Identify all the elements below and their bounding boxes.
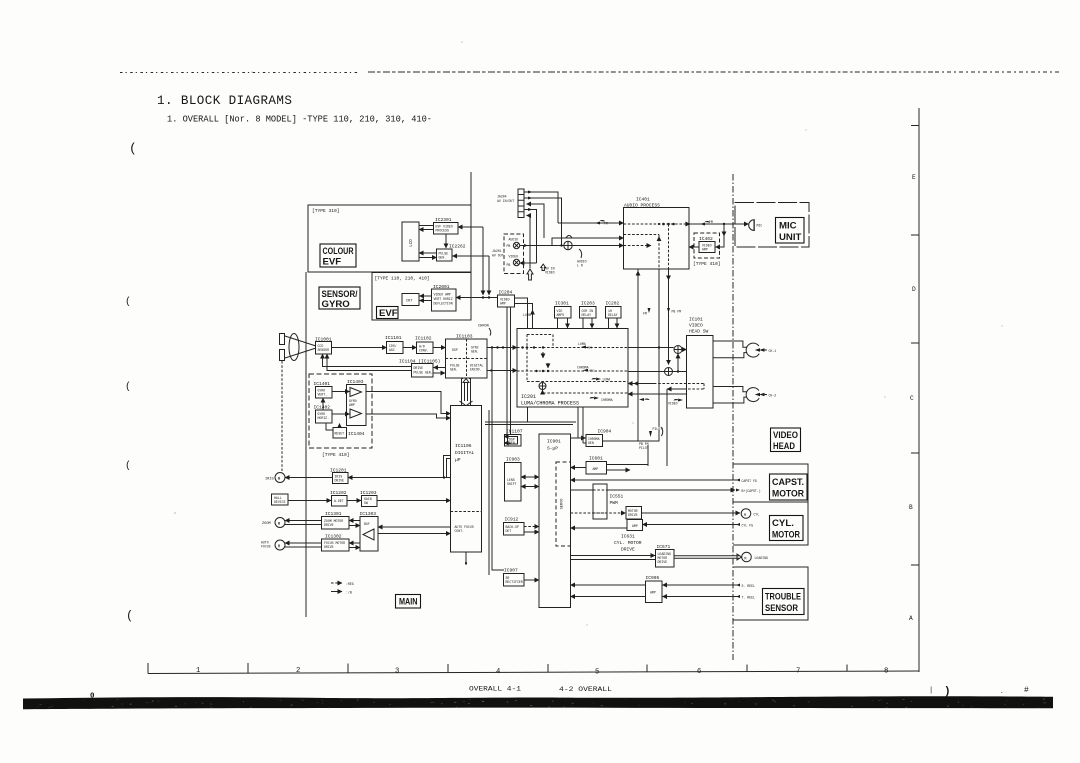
svg-text:DRIVE: DRIVE: [324, 523, 334, 527]
svg-text:DRIVE: DRIVE: [324, 545, 334, 549]
svg-text:VIDEO: VIDEO: [668, 402, 678, 406]
wire IC903 IC901 bus lower: [521, 486, 539, 488]
wire mechanical boundary dash-dot: [732, 174, 734, 660]
node t reel label: [736, 595, 755, 600]
svg-text:C: C: [910, 395, 914, 402]
wire IC905 to servo a: [571, 584, 646, 586]
op-amp IC1101 CDS/AGC: [385, 335, 403, 354]
op-amp IC901 servo microprocessor: [539, 434, 571, 608]
op-amp IC1104 IC1105 drive pulse gen: [399, 359, 440, 378]
op-amp IC1202 A DET: [330, 490, 347, 506]
wire PB luma return: [628, 383, 687, 385]
svg-text:PWM: PWM: [610, 500, 619, 506]
svg-text:S. REEL: S. REEL: [742, 584, 755, 588]
wire IC1402 to gyro amp: [332, 413, 350, 415]
node capst FG label: [736, 479, 757, 484]
wire loading drive to motor: [674, 554, 742, 560]
svg-text:MAIN: MAIN: [399, 596, 418, 607]
op-amp IC1303 buffer: [360, 511, 379, 551]
svg-text:VIDEO: VIDEO: [689, 323, 703, 329]
wire head ch2: [713, 387, 747, 404]
svg-text:(: (: [125, 381, 131, 393]
node MIC UNIT label: [776, 218, 805, 244]
op-amp IC204 video amp: [498, 290, 515, 308]
svg-text:AMP: AMP: [632, 524, 638, 528]
node cyl motor enclosure: [733, 502, 808, 545]
svg-text:CHROMA: CHROMA: [601, 398, 613, 402]
motor loading: [742, 552, 768, 562]
wire buffer to zoom drive: [349, 520, 360, 522]
svg-text:[TYPE 410]: [TYPE 410]: [322, 452, 350, 458]
svg-text:AMP: AMP: [349, 403, 355, 407]
wire IC601 out right: [607, 445, 649, 465]
op-amp IC2301 EVF video process: [434, 217, 459, 234]
node cyl FG label: [736, 523, 753, 528]
svg-text:µP: µP: [455, 457, 461, 463]
svg-text:IC1404: IC1404: [348, 431, 365, 437]
op-amp IC907 rectifier: [504, 568, 525, 587]
wire IC204 right out a: [515, 298, 528, 422]
node VIDEO HEAD label: [771, 428, 801, 452]
wire CCD drive return: [323, 354, 413, 371]
svg-text:MIC: MIC: [779, 221, 797, 232]
op-amp IC101 video head switch: [687, 317, 714, 409]
svg-text:IC1102: IC1102: [415, 336, 432, 342]
svg-text:.: .: [1000, 688, 1004, 695]
svg-text:LUMA: LUMA: [603, 378, 611, 382]
svg-text:AMP: AMP: [500, 302, 506, 306]
svg-text:MIC: MIC: [757, 224, 763, 228]
svg-text:UNIT: UNIT: [779, 232, 802, 243]
svg-text:M: M: [744, 514, 746, 518]
svg-text:RECTIFIER: RECTIFIER: [506, 580, 523, 584]
node CAPST MOTOR label: [770, 474, 808, 500]
wire CCD to CDS/AGC: [332, 347, 387, 349]
svg-text:LCD: LCD: [410, 239, 414, 247]
wire IC1103 luma out to IC201: [487, 346, 517, 348]
op-amp IC1302 focus motor drive: [322, 534, 350, 552]
svg-text:(: (: [126, 609, 133, 623]
svg-text:LUMA/CHROMA PROCESS: LUMA/CHROMA PROCESS: [521, 401, 579, 407]
svg-text:PROCESS: PROCESS: [436, 229, 449, 233]
node TROUBLE SENSOR label: [763, 589, 805, 615]
wire IC1106 side links: [444, 456, 451, 478]
svg-text:IC903: IC903: [506, 457, 520, 463]
wire IC601 out lower: [607, 469, 631, 471]
svg-text:LUMA: LUMA: [578, 342, 586, 346]
svg-text:IC905: IC905: [646, 575, 660, 581]
svg-text:M: M: [278, 523, 281, 527]
svg-text:ZOOM: ZOOM: [262, 522, 271, 526]
svg-text:M: M: [744, 557, 746, 561]
wire servo bundle below IC201: [485, 422, 576, 425]
wire A/D to DSP: [433, 347, 446, 349]
svg-text:D: D: [912, 286, 916, 293]
wire IC2301 to IC2262: [445, 234, 447, 248]
svg-text:IC1107: IC1107: [506, 429, 523, 435]
wire JA204 pin5: [527, 216, 531, 269]
op-amp IC1103 DSP: [446, 334, 488, 379]
wire IC903 IC901 bus upper: [521, 476, 539, 478]
svg-text:IC1106: IC1106: [455, 443, 472, 449]
op-amp IC1201 iris drive: [330, 468, 348, 484]
svg-text:DEVICE: DEVICE: [274, 500, 286, 504]
svg-text:RESET: RESET: [335, 432, 345, 436]
svg-text:3: 3: [395, 668, 399, 676]
node title: [157, 94, 432, 125]
svg-text:CAPST.: CAPST.: [772, 477, 804, 488]
svg-text:DRIVE: DRIVE: [658, 560, 668, 564]
wire capst FG: [571, 479, 738, 481]
svg-text:FM: FM: [709, 220, 713, 224]
node pilot labels: [639, 427, 663, 450]
op-amp IC203: [580, 301, 597, 319]
op-amp IC903 lens shift: [505, 457, 522, 502]
wire IC2262 feed down: [453, 256, 490, 295]
svg-text:CONT.: CONT.: [455, 529, 465, 533]
svg-text:T. REEL: T. REEL: [742, 596, 755, 600]
wire IC905 to servo b: [571, 596, 646, 598]
node RESET block IC1404: [333, 428, 365, 439]
svg-text:VERT HORIZ: VERT HORIZ: [434, 297, 453, 301]
svg-text:GEN.: GEN.: [450, 368, 458, 372]
svg-text:FOCUS: FOCUS: [261, 545, 271, 549]
transistor IC1001 CCD sensor: [315, 337, 332, 355]
svg-text:FM: FM: [604, 222, 608, 226]
wire LCD to IC2301: [419, 226, 434, 230]
wire CDS to A/D: [403, 347, 417, 349]
wire IC203 pins: [583, 318, 592, 328]
wire video jack line: [520, 262, 537, 264]
svg-text:PILOT: PILOT: [639, 446, 649, 450]
svg-text:AMP: AMP: [650, 591, 656, 595]
svg-text:PULSE GEN.: PULSE GEN.: [414, 371, 433, 375]
svg-text:AUDIO: AUDIO: [509, 238, 519, 242]
wire audio upper path: [552, 236, 624, 246]
wire JA204 pin3: [527, 204, 545, 238]
svg-text:PB: PB: [507, 244, 511, 248]
svg-text:HEAD: HEAD: [773, 441, 795, 452]
wire into IC1107 b: [504, 442, 511, 444]
svg-text:CYL. MOTOR: CYL. MOTOR: [614, 540, 642, 546]
svg-text:GYRO: GYRO: [322, 299, 351, 310]
wire IC301 pins: [558, 318, 568, 328]
wire IC907 to IC901: [524, 579, 539, 581]
svg-text:AV OUT: AV OUT: [492, 254, 504, 258]
wire into IC1107 a: [504, 436, 507, 438]
node board frame TYPE 110,210,410: [372, 172, 471, 320]
wire IC2001 to CRT: [420, 295, 432, 297]
page-edge scan artifact line (decorative omitted-label): [120, 71, 1062, 74]
wire zoom motor sense: [285, 524, 322, 526]
svg-text:VERT.: VERT.: [318, 393, 328, 397]
node right margin ruler: [909, 108, 919, 672]
svg-text:5: 5: [595, 669, 599, 677]
wire pilot line: [647, 445, 649, 466]
wire A DET to gain sw: [347, 500, 361, 502]
svg-text:1. BLOCK DIAGRAMS: 1. BLOCK DIAGRAMS: [157, 94, 292, 108]
svg-text:A.DET: A.DET: [334, 499, 344, 503]
wire FM line JA to IC401: [558, 220, 624, 226]
wire IC1103 chroma out to IC201: [487, 369, 517, 371]
svg-text:2: 2: [296, 667, 300, 675]
svg-text:): ): [944, 686, 951, 698]
wire JA204 pin4: [524, 208, 537, 263]
display LCD: [402, 222, 419, 261]
op-amp IC301: [555, 301, 572, 319]
wire amp to servo: [571, 527, 628, 529]
svg-text:IC202: IC202: [606, 301, 620, 307]
op-amp IC551 PWM: [593, 484, 624, 519]
wire gyro amp out 1: [366, 392, 451, 414]
svg-text:CYL FG: CYL FG: [742, 524, 754, 528]
wire head ch1: [713, 341, 747, 358]
op-amp IC601 amp: [586, 456, 607, 475]
op-amp IC1401 gyro vert: [314, 381, 333, 398]
svg-text:IC601: IC601: [589, 456, 603, 462]
node CYL MOTOR label: [770, 516, 804, 541]
display CRT: [402, 294, 419, 306]
wire IC1106 to buffer: [378, 527, 451, 534]
svg-text:PILOT: PILOT: [653, 427, 663, 431]
svg-text:A: A: [909, 615, 913, 622]
op-amp IC631 cyl motor drive: [614, 507, 643, 553]
node audio mixer: [564, 241, 572, 249]
svg-text:ENCOD.: ENCOD.: [470, 368, 482, 372]
op-amp IC1102 A/D converter: [415, 336, 433, 354]
svg-text:1: 1: [196, 667, 200, 675]
svg-text:1. OVERALL [Nor. 8 MODEL] -TYP: 1. OVERALL [Nor. 8 MODEL] -TYPE 110, 210…: [167, 115, 432, 125]
wire IC1106 lower links: [465, 552, 467, 565]
svg-text:DEFLECTION: DEFLECTION: [434, 302, 453, 306]
svg-text:8: 8: [884, 668, 888, 676]
op-amp IC401 audio process: [624, 197, 690, 270]
svg-text:|: |: [929, 687, 933, 695]
wire IC1106 to iris drive: [348, 476, 451, 478]
svg-text:DELAY: DELAY: [582, 313, 592, 317]
svg-text:[TYPE 310]: [TYPE 310]: [312, 208, 340, 214]
svg-text:BUF: BUF: [364, 522, 370, 526]
svg-text:S-µP: S-µP: [547, 446, 558, 452]
wire IC904 out: [603, 430, 660, 441]
wire PB chroma return: [628, 394, 687, 401]
svg-text:DRIVE: DRIVE: [414, 366, 424, 370]
svg-text:HORIZ.: HORIZ.: [318, 416, 330, 420]
wire hall to A DET: [288, 500, 331, 502]
node margin marks: [125, 141, 137, 623]
svg-text:4: 4: [496, 668, 500, 676]
svg-text:DRIVE: DRIVE: [335, 479, 345, 483]
wire zoom drive to buffer: [349, 525, 360, 527]
svg-text:SW: SW: [364, 501, 368, 505]
svg-text:IC904: IC904: [598, 429, 612, 435]
svg-text:CH-1: CH-1: [769, 349, 777, 353]
wire main board left boundary: [305, 272, 307, 617]
motor auto focus: [261, 540, 285, 550]
node microphone: [749, 219, 763, 231]
svg-text:GEN.: GEN.: [471, 350, 479, 354]
wire iris drive to motor: [285, 477, 333, 479]
wire s reel in: [663, 584, 738, 586]
op-amp IC1203 gain sw: [360, 490, 377, 507]
node s reel label: [736, 584, 755, 589]
wire focus motor sense: [285, 546, 322, 548]
wire IC1401 to gyro amp: [332, 391, 350, 393]
op-amp IC201 luma chroma process: [517, 329, 628, 408]
svg-text:DRIVE: DRIVE: [621, 547, 635, 553]
svg-text:AMP: AMP: [593, 467, 599, 471]
wire drive pulse gen to DSP: [433, 372, 445, 374]
wire cyl drive to motor: [642, 512, 741, 514]
wire zoom drive to motor: [285, 520, 322, 522]
wire IC912 to IC901 b: [524, 531, 539, 533]
wire IC402 to IC401: [689, 246, 699, 248]
node B+ capst label: [736, 489, 761, 494]
svg-text:LUMA: LUMA: [523, 313, 531, 317]
node lens assembly: [280, 334, 317, 361]
svg-text:SERVO: SERVO: [561, 499, 565, 510]
node AV in arrow: [527, 269, 533, 280]
motor zoom: [262, 518, 285, 528]
svg-text:EVF: EVF: [323, 257, 342, 268]
wire IC2001 to CRT lower: [420, 300, 432, 302]
svg-text:[TYPE 410]: [TYPE 410]: [693, 261, 721, 267]
svg-text:CONV.: CONV.: [419, 348, 429, 352]
svg-text:IC1101: IC1101: [385, 335, 402, 341]
svg-text:JA201: JA201: [492, 249, 502, 253]
op-amp IC671 loading motor drive: [656, 544, 675, 567]
wire cyl FG to amp: [643, 524, 738, 526]
wire IC202 pins: [609, 318, 618, 328]
wire reset link: [326, 423, 333, 430]
svg-text:(: (: [129, 141, 137, 156]
wire gyro amp out 2: [366, 414, 451, 418]
svg-text:OVERALL 4-1: OVERALL 4-1: [469, 686, 521, 694]
wire focus drive to motor: [285, 542, 322, 544]
svg-text:LOADING: LOADING: [755, 556, 768, 560]
op-amp IC2001 EVF video amp deflection: [432, 284, 457, 311]
svg-text:CHRON: CHRON: [478, 325, 489, 329]
svg-text:FM: FM: [643, 312, 647, 316]
svg-text:CAPST FG: CAPST FG: [742, 479, 757, 483]
wire bus sync down: [488, 410, 490, 575]
svg-text:DET: DET: [506, 529, 512, 533]
svg-text:DRIVE: DRIVE: [628, 513, 638, 517]
svg-text:IC401: IC401: [636, 197, 650, 203]
wire JA204 pin1 to audio line: [524, 191, 558, 224]
node COLOUR EVF label: [320, 244, 356, 268]
svg-text:IC912: IC912: [505, 517, 519, 523]
svg-text:L R: L R: [577, 264, 583, 268]
node SENSOR/GYRO label: [319, 287, 360, 310]
svg-text:[TYPE 110, 210, 410]: [TYPE 110, 210, 410]: [375, 276, 430, 282]
svg-text:M: M: [278, 545, 281, 549]
svg-text:(: (: [125, 296, 131, 308]
wire servo to cyl drive: [571, 512, 626, 514]
svg-text:EVF: EVF: [379, 308, 398, 319]
node legend b line: [331, 591, 352, 595]
svg-text:REC: REC: [590, 370, 595, 373]
svg-text:CYL: CYL: [754, 513, 760, 517]
svg-text:B: B: [909, 504, 913, 511]
wire t reel in: [663, 596, 738, 598]
wire IC901 to IC904: [571, 437, 586, 439]
node head ch1: [746, 343, 776, 357]
wire DSP to drive pulse gen: [434, 367, 446, 369]
svg-text:AGC: AGC: [389, 348, 395, 352]
op-amp IC912 backup det: [504, 517, 525, 536]
op-amp IC1106 digital microprocessor: [451, 406, 482, 553]
node footer page labels: [469, 686, 612, 695]
node chron label: [478, 325, 491, 336]
svg-text:SENSOR: SENSOR: [318, 348, 330, 352]
wire LCD to IC2262: [419, 257, 437, 259]
op-amp IC1107: [505, 429, 523, 447]
node legend reg: [331, 582, 354, 586]
svg-text:VIDEO AMP: VIDEO AMP: [434, 293, 451, 297]
svg-text:IC907: IC907: [504, 568, 518, 574]
svg-text:SENSOR: SENSOR: [765, 603, 798, 614]
op-amp IC402 video amp: [693, 233, 721, 267]
wire IC201 luma out with mixer: [628, 346, 687, 354]
svg-text:VIDEO: VIDEO: [509, 255, 519, 259]
node EVF label: [377, 307, 399, 320]
wire IC2301 input from video bus: [458, 227, 483, 295]
svg-text:M: M: [278, 478, 281, 482]
node AV IN VIDEO label: [541, 264, 555, 275]
op-amp IC1301 zoom motor drive: [322, 511, 350, 529]
svg-text::/B: :/B: [346, 591, 352, 595]
svg-text:IC101: IC101: [689, 317, 703, 323]
node mic unit enclosure: [735, 203, 809, 248]
svg-text:IC631: IC631: [621, 534, 635, 540]
node hall device: [272, 494, 289, 505]
svg-text:IC201: IC201: [521, 394, 536, 400]
wire B+ through PWM: [571, 489, 736, 491]
wire reset to IC1402: [339, 424, 341, 428]
wire IC1401 bias: [322, 398, 324, 410]
svg-text:E: E: [912, 174, 916, 181]
svg-text:4-2 OVERALL: 4-2 OVERALL: [559, 686, 612, 694]
wire IC101 pb outputs left: [667, 389, 687, 466]
svg-text:IC203: IC203: [581, 301, 595, 307]
node JA201 AV out jacks: [492, 234, 524, 274]
svg-text:COLOUR: COLOUR: [323, 246, 354, 257]
node bottom margin ruler: [148, 663, 919, 677]
svg-text:SHIFT: SHIFT: [507, 482, 517, 486]
wire iris mechanical link: [281, 361, 283, 471]
svg-text:#: #: [1024, 686, 1029, 695]
svg-text:DSP: DSP: [452, 348, 458, 352]
node JA204 AV in/out connector: [497, 189, 524, 218]
svg-text:IC551: IC551: [610, 494, 624, 500]
svg-text:MOTOR: MOTOR: [772, 489, 804, 500]
svg-text:IC901: IC901: [547, 439, 561, 445]
svg-text:GEN.: GEN.: [439, 256, 447, 260]
node FM bus labels: [643, 308, 681, 316]
node trouble sensor enclosure: [733, 567, 808, 620]
wire IC2001 video input: [456, 296, 498, 298]
wire IC401 bottom buses: [638, 269, 669, 441]
svg-text:CHROMA: CHROMA: [577, 366, 589, 370]
wire IC912 to IC901 a: [524, 526, 539, 528]
wire buffer to focus drive: [349, 542, 360, 544]
svg-text:VIDEO: VIDEO: [545, 271, 555, 275]
node bottom black separator bar: [23, 686, 1053, 709]
wire servo to loading drive: [571, 556, 656, 560]
node specks: [174, 41, 1003, 626]
wire scan top edge: [120, 72, 360, 74]
